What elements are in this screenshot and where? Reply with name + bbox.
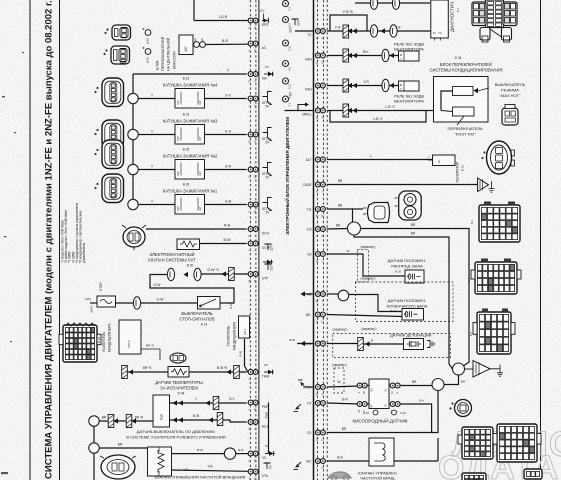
- evaporator temperature sensor box: [168, 367, 189, 378]
- inline connector top 2: [392, 0, 399, 9]
- ignition coil box №4: [175, 89, 205, 109]
- left margin rule: [29, 0, 31, 480]
- diagnostic connector box: [431, 0, 449, 38]
- A/C amplifier unit box: [119, 320, 141, 354]
- splice PSP wire a: [108, 415, 114, 428]
- ECU pin HT: [315, 401, 325, 412]
- wire from fuse to stop switch: [116, 302, 198, 304]
- pin circle D49: [145, 30, 151, 36]
- ECU pin VTA: [248, 469, 258, 480]
- ECU bus (left) solid line: [258, 0, 260, 480]
- wire L to generator: [327, 159, 433, 161]
- idle speed control valve box (left): [148, 447, 172, 476]
- wire to fuse: [90, 302, 97, 304]
- connector ignition coil №2: [94, 140, 123, 169]
- grommet 1: [283, 1, 289, 7]
- junction circle shield: [453, 363, 465, 375]
- connector console switch 2: [103, 46, 129, 64]
- inline connector top: [370, 0, 377, 9]
- wire down off page: [93, 453, 95, 480]
- splice evap sensor right: [234, 366, 240, 379]
- ECU internal PSP-VC link: [268, 403, 270, 454]
- ignition coil box №3: [175, 125, 205, 145]
- ECU pin STP: [248, 272, 258, 283]
- arrow to FOOT F/D: [457, 116, 464, 125]
- arrow G-W: [183, 272, 188, 277]
- connector right 4: [458, 427, 497, 459]
- connector right 2: [471, 262, 521, 294]
- ignition coil box №2: [175, 160, 205, 180]
- idle speed control valve box (right): [369, 438, 394, 466]
- ECU pin ISC: [315, 459, 325, 470]
- wire BR CI2: [327, 228, 348, 231]
- ECU pin OX1A: [315, 385, 325, 396]
- junction circle BR: [432, 379, 444, 391]
- wire R-B OCV-: [146, 228, 247, 230]
- A/C control panel box: [434, 77, 489, 123]
- VVT solenoid connector: [122, 225, 146, 250]
- ECU pin FAN: [315, 83, 325, 94]
- 5V VTA: [264, 463, 273, 469]
- wire NE- to sensor: [327, 315, 402, 317]
- wire G-R from coil №2: [205, 169, 247, 171]
- ECU pin NE-: [315, 312, 325, 323]
- ECU pin PSP: [248, 400, 258, 411]
- splice knock: [358, 338, 364, 351]
- wire evaporator sensor to THW: [128, 371, 247, 373]
- stoplight switch box: [198, 297, 221, 310]
- wire PSP switch out 1: [170, 402, 247, 404]
- wire NE to junction: [327, 293, 338, 295]
- connector right 5: [493, 424, 541, 462]
- ECU bus dashed: [323, 0, 325, 480]
- wire BR from CASE: [327, 184, 478, 186]
- camshaft position sensor box: [405, 270, 424, 283]
- connector ignition coil №1: [94, 174, 123, 203]
- splice at TC row: [343, 25, 349, 38]
- grommet 2: [283, 17, 289, 23]
- wire OX to o2 sensor: [327, 386, 360, 387]
- wire Y to coil №1: [129, 204, 176, 206]
- 12V feed arrow at SFD: [259, 9, 268, 24]
- knock sensor plug: [427, 341, 434, 348]
- wire Y to coil №2: [129, 169, 176, 171]
- wire BR continues right and down: [361, 229, 470, 368]
- ECU pin IGF: [248, 72, 258, 83]
- wire BR to ISCV: [99, 447, 148, 449]
- grommet 4: [283, 61, 289, 67]
- ECU bus (left) dashed lines: [249, 0, 251, 480]
- o2 sensor pin pair left bottom: [357, 402, 367, 413]
- oxygen sensor box: [369, 379, 389, 409]
- power steering pressure switch box: [153, 395, 170, 427]
- junction circle 2: [89, 443, 99, 453]
- ECU pin AC1: [248, 420, 258, 431]
- pin at A/C box 1: [194, 42, 200, 48]
- noise filter triangle at CASE + ground: [478, 178, 489, 192]
- ground arrow near ISC: [294, 462, 302, 470]
- wire L-B *1 lower: [330, 111, 426, 123]
- up arrow at OX1A row: [298, 380, 314, 387]
- 5V diode IGF: [264, 72, 274, 77]
- pin at A/C box 2: [200, 42, 206, 48]
- DLC feet and latch: [480, 28, 490, 41]
- splice PSP 1: [213, 397, 219, 410]
- connector 2-round CI2: [395, 191, 422, 220]
- o2 sensor pin pair right bottom: [390, 402, 400, 413]
- wire W-B MREL stub: [285, 110, 314, 112]
- ignition coil box №1: [175, 195, 205, 215]
- VVT solenoid box: [177, 239, 200, 250]
- connector ignition coil №3: [94, 120, 123, 149]
- grommet 6: [283, 96, 289, 102]
- wire to VC pin: [236, 453, 248, 455]
- shield box camshaft wire: [358, 250, 369, 283]
- connector ignition coil №4: [94, 78, 123, 107]
- connector W-L: [382, 49, 389, 61]
- ECU bus dashed: [326, 0, 328, 480]
- ECU pin CI2: [315, 227, 325, 238]
- junction circle coil №3: [128, 129, 138, 139]
- ECU pin NE: [315, 292, 325, 303]
- wire B-R to ISCV right: [327, 460, 369, 462]
- junction circle coil №1: [128, 199, 138, 209]
- shield box crankshaft circuit: [355, 282, 453, 321]
- wire G-W from AC amp down: [245, 339, 248, 372]
- ECU pin E1: [315, 430, 325, 441]
- igniter №3: [263, 128, 273, 145]
- diagnostic connector DLC3: [486, 0, 504, 28]
- generator box: [433, 155, 456, 166]
- arrow F-B: [380, 28, 385, 33]
- o2 sensor pin pair right top: [390, 383, 400, 394]
- scan noise overlay: [0, 0, 1, 1]
- arrow at splice: [221, 271, 226, 276]
- wire HT o2 heater: [327, 403, 360, 404]
- connector at fuse: [133, 297, 140, 309]
- wire from top to SFD: [193, 0, 195, 21]
- connector console switch 1: [104, 25, 130, 40]
- ECU boundary heavy line: [313, 0, 315, 480]
- ECU pin IGT4: [248, 96, 258, 107]
- small connector near evaporator sensor: [170, 353, 186, 363]
- wire NE to crankshaft sensor: [349, 295, 402, 312]
- wire splice to knock sensor: [364, 343, 404, 345]
- wire G-O from coil №3: [205, 134, 247, 136]
- wire G-W stop circuit loop: [150, 275, 234, 304]
- ECU pin THW: [248, 370, 258, 380]
- ECU pin FAN: [315, 53, 325, 64]
- junction circle coil №2: [128, 164, 138, 174]
- wire Y to coil №4: [129, 98, 176, 100]
- connector trapezoid CI1: [363, 203, 390, 223]
- wire B-Y from o2 +B down: [401, 404, 432, 433]
- connector F-B b: [390, 25, 397, 37]
- pin circle D40: [145, 49, 151, 55]
- ECU pin ALT: [315, 157, 325, 168]
- splice G-W *3: [229, 268, 235, 281]
- wire G2 to camshaft sensor: [327, 254, 405, 276]
- generator connector (3-pin oval): [481, 141, 514, 174]
- connector A/C amplifier В 39: [59, 325, 101, 362]
- wire into o2 box: [365, 385, 369, 387]
- junction circle coil №4: [128, 93, 138, 103]
- wire to knock splice: [327, 343, 358, 345]
- o2 sensor pin pair left top: [357, 383, 367, 394]
- wire B-R to AC pin: [206, 43, 248, 45]
- ECU pin G2: [315, 252, 325, 263]
- splice fan relay 1 row: [343, 79, 349, 92]
- 12V OCV: [265, 244, 274, 251]
- small round connector right: [449, 400, 471, 417]
- wire G-W *3 to STP pin: [201, 273, 248, 275]
- ECU bus dashed: [317, 0, 319, 480]
- wire PSP switch out 2: [170, 420, 247, 422]
- ECU pin MREL: [315, 108, 325, 119]
- connector right 1: [479, 205, 520, 242]
- junction circle VC: [224, 448, 235, 459]
- splice fan relay 2 row: [343, 49, 349, 62]
- ECU pin TC: [315, 29, 325, 40]
- connector G-W circuit a: [167, 268, 174, 280]
- wire o2 E1 to junction: [401, 385, 432, 387]
- 12V STP: [265, 264, 274, 271]
- ECU pin OCV+: [248, 241, 258, 251]
- wire BR from E1: [327, 390, 438, 433]
- wire G-Y from coil №4: [205, 98, 247, 100]
- ECU pin KNK1: [315, 341, 325, 352]
- inner switch rect 1: [453, 87, 474, 96]
- ECU pin CI1: [315, 207, 325, 218]
- wire TC to diagnostic: [327, 30, 431, 32]
- connector Y-R: [382, 79, 389, 91]
- ECU pin AC: [248, 41, 258, 52]
- battery feed hook MREL: [298, 102, 309, 110]
- wire Y-B from valve to VTA: [172, 470, 248, 471]
- wire CI1 to connector: [353, 208, 364, 210]
- wire BR lower branch: [354, 235, 449, 364]
- ground arrow near HT: [294, 404, 302, 412]
- fan relay 1 box: [399, 81, 420, 91]
- 12V at TC row: [292, 19, 301, 26]
- ECU pin VC: [248, 451, 258, 462]
- wire Y to coil №3: [129, 134, 176, 136]
- ECU pin OCV-: [248, 227, 258, 238]
- igniter №1: [263, 198, 273, 215]
- noise filter triangle 2: [473, 361, 490, 378]
- splice PSP wire b: [126, 415, 132, 428]
- wire G-B from coil №1: [205, 204, 247, 206]
- arrow NE stub: [300, 291, 305, 296]
- shield box o2 wire: [334, 368, 344, 393]
- fuse STOP 15A: [97, 296, 116, 307]
- splice evap sensor left: [122, 366, 128, 379]
- inner switch rect 2: [453, 107, 475, 116]
- wire B-W from valve to VC: [172, 453, 225, 455]
- grommet 5: [283, 78, 289, 84]
- A/C amplifier box (right): [239, 316, 250, 338]
- crankshaft position sensor box: [402, 309, 424, 321]
- right page border: [540, 0, 542, 480]
- wire from ISCV right: [394, 460, 438, 462]
- diode THW: [264, 370, 274, 375]
- junction link wire: [93, 426, 95, 443]
- car silhouette watermark: [328, 472, 351, 480]
- junction circle NE: [338, 290, 349, 301]
- ECU pin IGT2: [248, 167, 258, 178]
- o2 sensor pin circles: [373, 410, 378, 415]
- junction circle CI2: [348, 222, 361, 235]
- left margin rule 2: [59, 0, 61, 480]
- wire W-L to fan relay 2: [327, 55, 399, 57]
- igniter №2: [263, 163, 273, 180]
- wire BR from filter circle to junction: [445, 375, 459, 385]
- shield box knock circuit: [333, 334, 451, 358]
- igniter №4: [263, 92, 273, 109]
- wire Y to IGF pin: [133, 73, 247, 75]
- wire BR CI1 to junction: [327, 209, 353, 222]
- connector F-B a: [370, 25, 377, 37]
- arrow to MAX HOT switch: [477, 88, 489, 91]
- ECU pin IGT1: [248, 202, 258, 213]
- IGF common vertical wire: [132, 74, 134, 205]
- arrow KNK stub: [300, 341, 305, 346]
- A/C switch box: [179, 35, 193, 55]
- scan specks left margin: [1, 52, 24, 474]
- wire L-B *2 to AC block: [327, 110, 434, 112]
- splice L-B row: [343, 104, 349, 117]
- wire Y-R to fan relay 1: [327, 85, 399, 87]
- fan relay 2 box: [399, 51, 420, 61]
- knock sensor box: [404, 339, 424, 350]
- oxygen sensor style connector bottom-left: [100, 455, 136, 479]
- connector MAX HOT: [502, 105, 518, 126]
- wire inside AC panel: [441, 91, 453, 111]
- connector bottom edge b: [524, 469, 542, 479]
- ECU pin CASE: [315, 182, 325, 192]
- ECU pin SFD: [248, 18, 258, 29]
- ECU pin IGT3: [248, 132, 258, 143]
- junction circle 1: [89, 416, 99, 426]
- diode VC: [265, 451, 275, 456]
- top wire to diag block: [355, 2, 430, 4]
- wire BR to PSP switch: [99, 420, 153, 422]
- drain to filter circle: [449, 364, 453, 369]
- connector right 3: [473, 312, 515, 354]
- connector bottom edge a: [462, 473, 486, 480]
- wire B-W OCV+: [200, 243, 247, 245]
- diode OCV: [263, 260, 273, 265]
- vertical to junction: [437, 438, 439, 461]
- connector G-W circuit b: [194, 268, 201, 280]
- wire LG-R to SFD pin: [194, 20, 248, 22]
- grommet 3: [283, 40, 289, 46]
- bypass wire F-B *5: [330, 15, 367, 31]
- splice PSP 2: [217, 413, 223, 426]
